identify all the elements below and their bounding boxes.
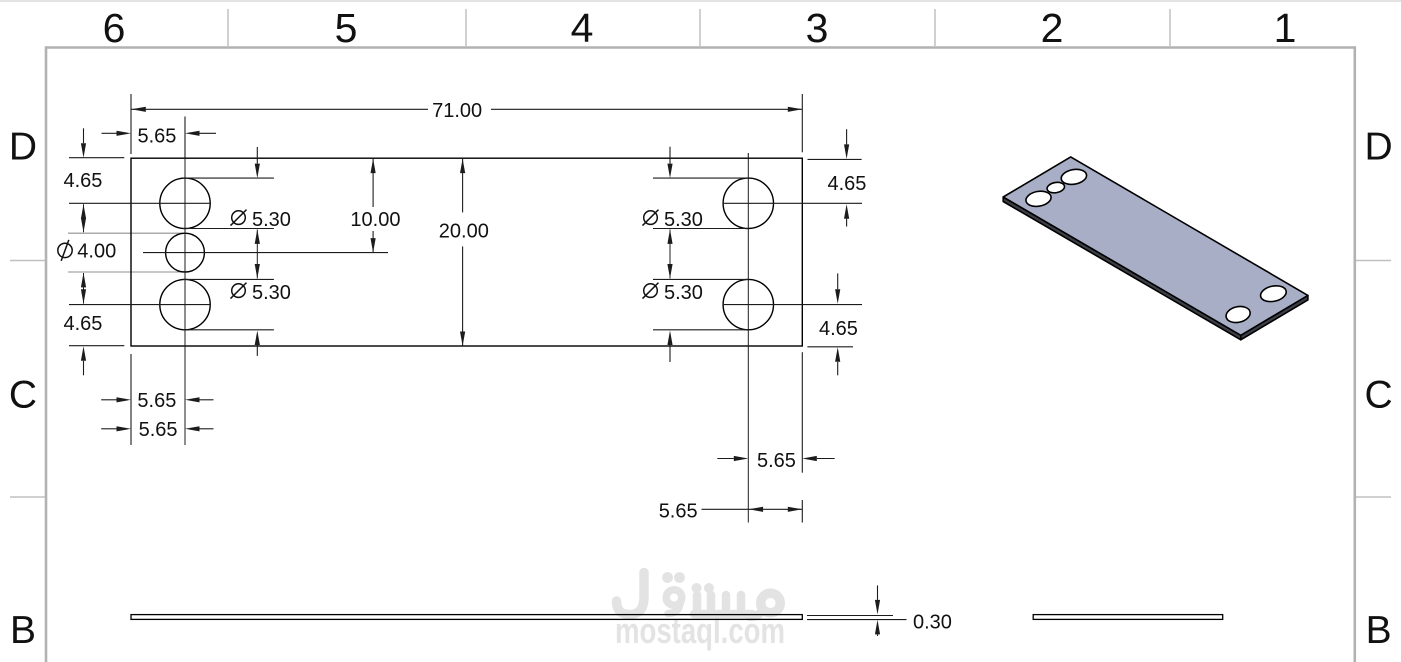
svg-text:1: 1 bbox=[1274, 5, 1297, 51]
svg-text:2: 2 bbox=[1041, 5, 1064, 51]
svg-text:5.30: 5.30 bbox=[664, 282, 703, 304]
svg-text:B: B bbox=[10, 609, 36, 652]
svg-text:0.30: 0.30 bbox=[913, 611, 952, 633]
svg-text:10.00: 10.00 bbox=[350, 209, 400, 231]
svg-text:5.65: 5.65 bbox=[137, 390, 176, 412]
svg-text:6: 6 bbox=[103, 5, 126, 51]
svg-text:4: 4 bbox=[571, 5, 594, 51]
svg-text:C: C bbox=[9, 374, 37, 417]
svg-text:B: B bbox=[1366, 609, 1392, 652]
svg-text:C: C bbox=[1365, 374, 1393, 417]
svg-text:4.65: 4.65 bbox=[828, 173, 867, 195]
svg-text:4.65: 4.65 bbox=[819, 318, 858, 340]
svg-text:5.30: 5.30 bbox=[252, 209, 291, 231]
svg-text:5.65: 5.65 bbox=[659, 501, 698, 523]
svg-text:5.30: 5.30 bbox=[252, 282, 291, 304]
svg-text:5.65: 5.65 bbox=[757, 450, 796, 472]
svg-text:mostaql.com: mostaql.com bbox=[615, 610, 785, 651]
svg-text:5.30: 5.30 bbox=[664, 209, 703, 231]
svg-text:5.65: 5.65 bbox=[138, 125, 177, 147]
svg-text:4.00: 4.00 bbox=[77, 241, 116, 263]
svg-text:71.00: 71.00 bbox=[432, 100, 482, 122]
svg-text:3: 3 bbox=[806, 5, 829, 51]
svg-text:5.65: 5.65 bbox=[139, 419, 178, 441]
svg-text:4.65: 4.65 bbox=[64, 170, 103, 192]
svg-text:5: 5 bbox=[335, 5, 358, 51]
svg-text:4.65: 4.65 bbox=[64, 313, 103, 335]
svg-text:20.00: 20.00 bbox=[439, 221, 489, 243]
svg-text:D: D bbox=[9, 126, 37, 169]
svg-text:D: D bbox=[1365, 126, 1393, 169]
